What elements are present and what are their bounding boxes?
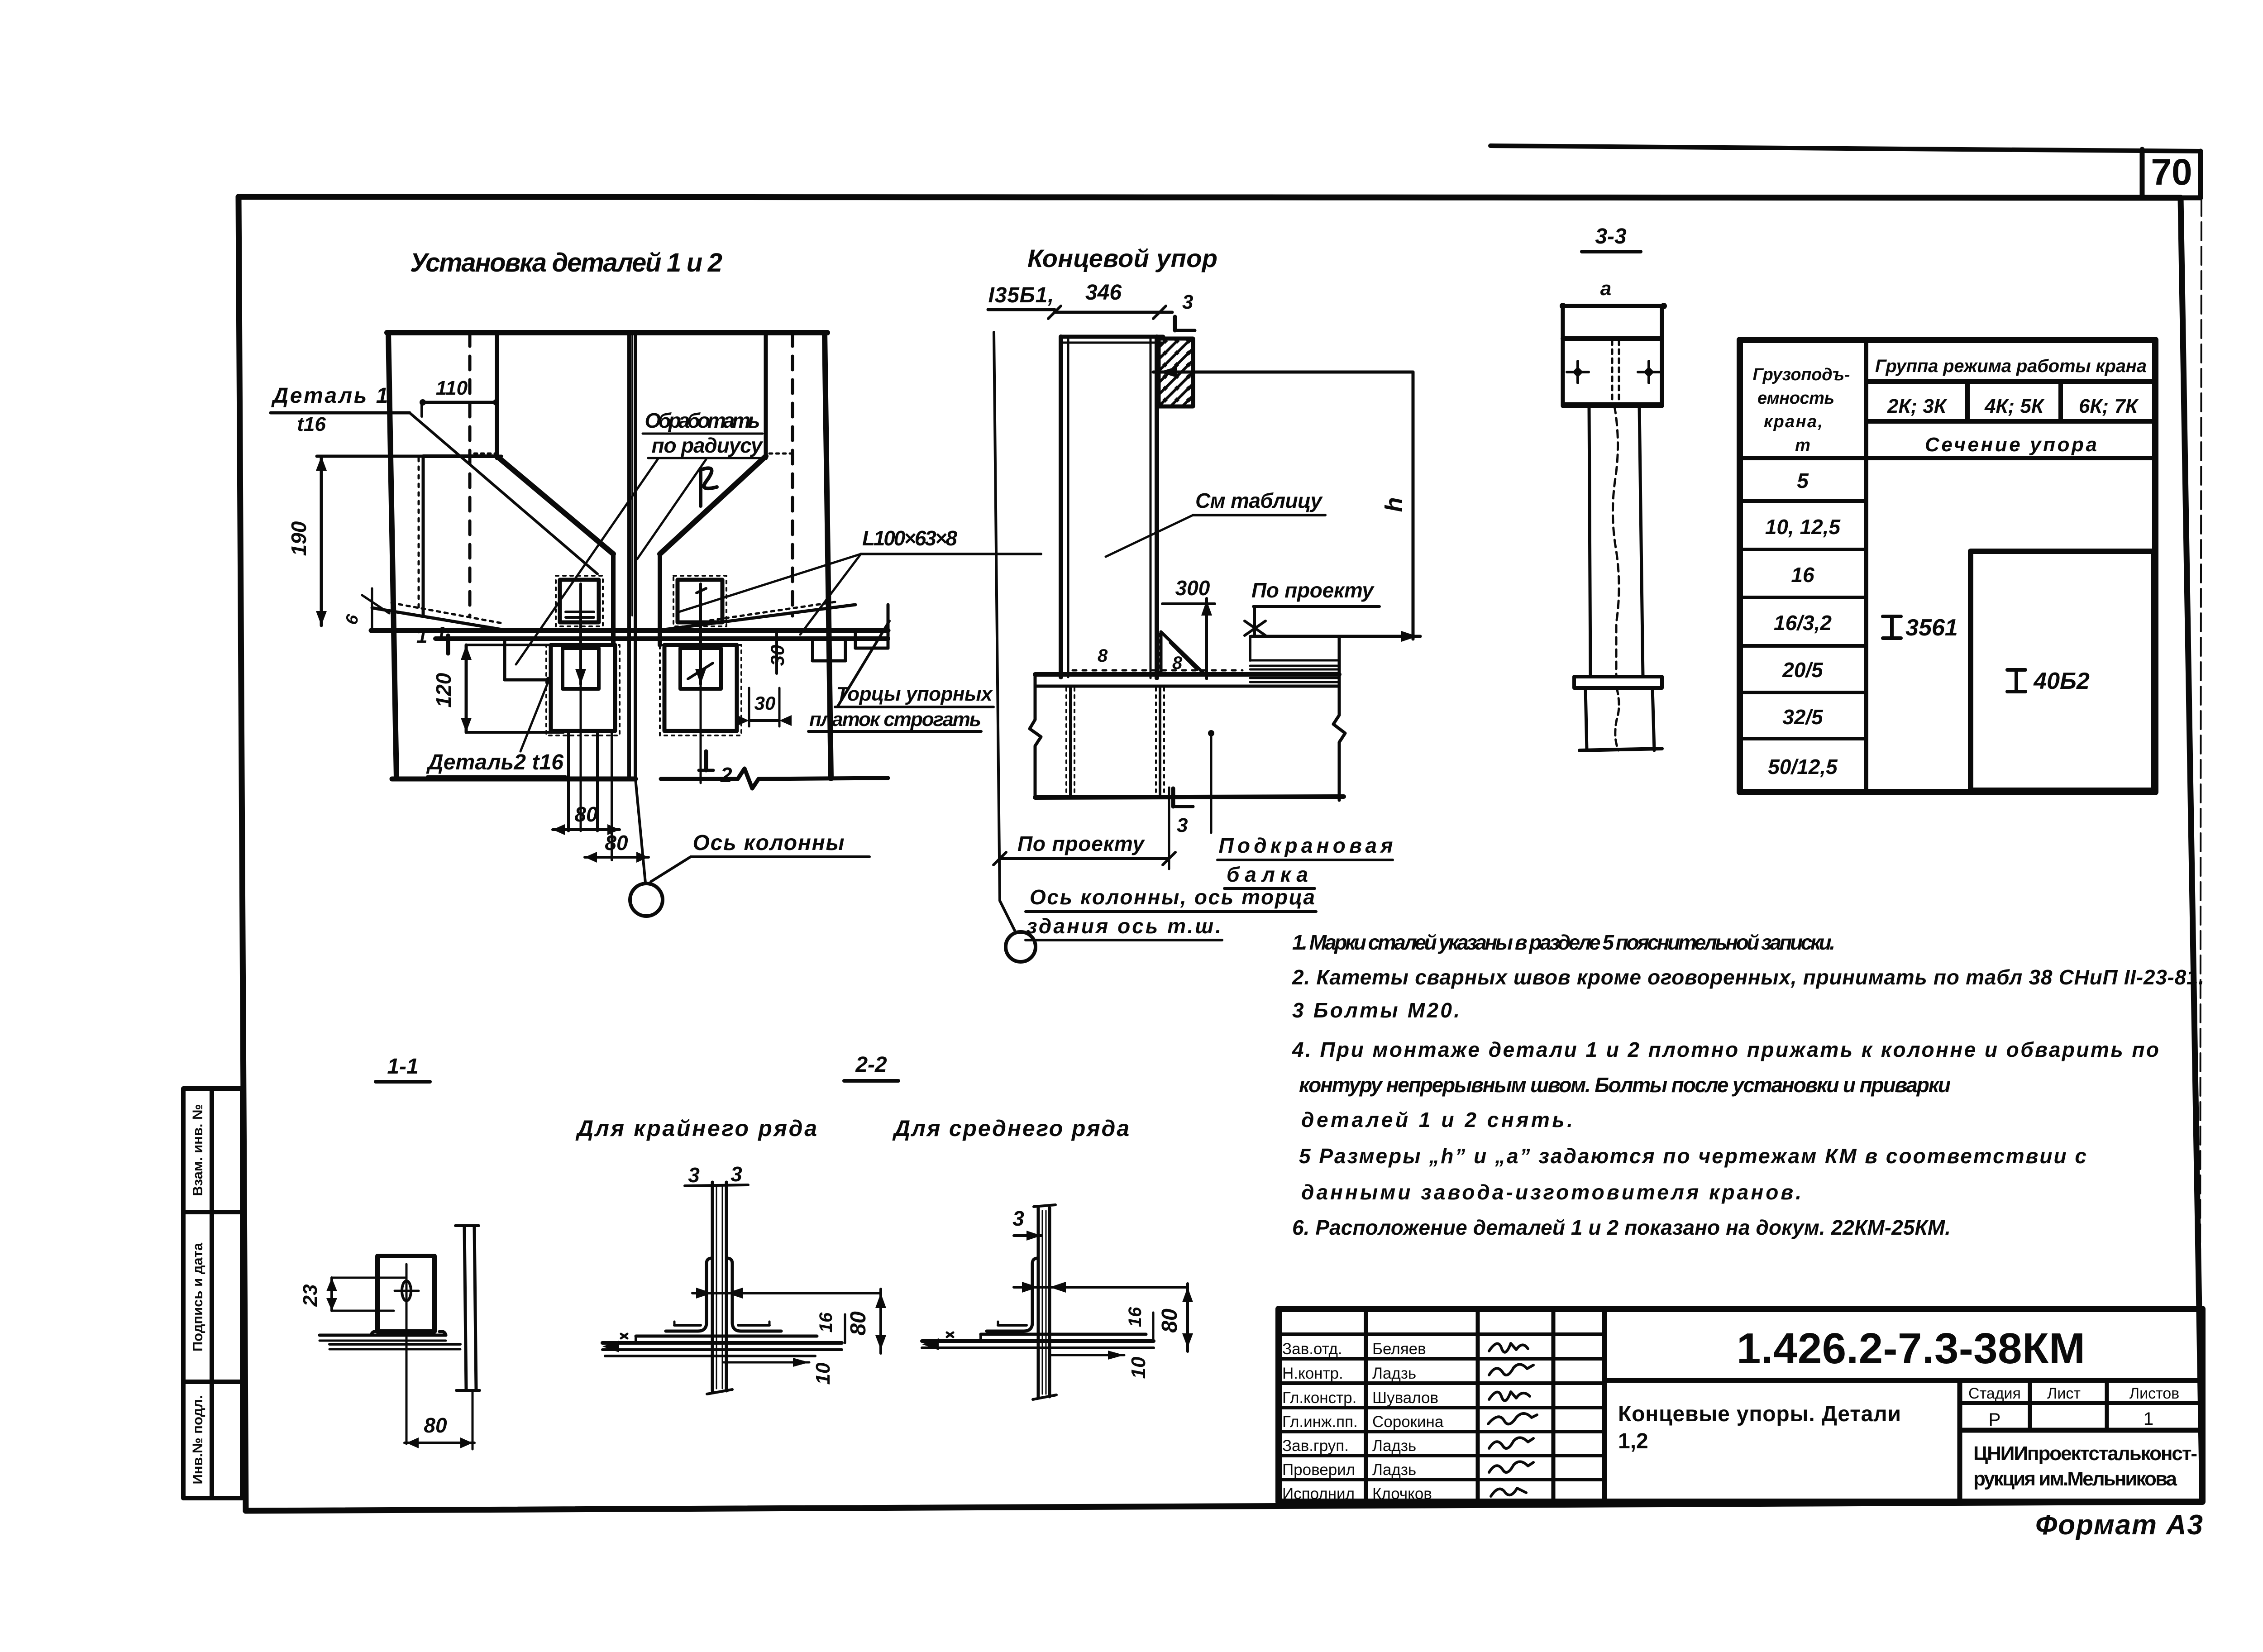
svg-text:16: 16 [1791, 563, 1814, 587]
svg-text:3-3: 3-3 [1595, 224, 1627, 248]
funnel right slope [660, 456, 766, 554]
svg-text:80: 80 [846, 1311, 870, 1336]
column axis circle [630, 883, 663, 916]
svg-text:80: 80 [574, 802, 598, 826]
signatures squiggles [1488, 1343, 1537, 1496]
svg-text:Гл.инж.пп.: Гл.инж.пп. [1282, 1413, 1358, 1431]
top binding strip [1490, 146, 2201, 151]
svg-text:Лист: Лист [2047, 1385, 2081, 1402]
table rows load values [1765, 469, 1841, 778]
svg-text:Подкрановая: Подкрановая [1219, 834, 1393, 857]
legs below left detail [567, 731, 570, 831]
svg-text:80: 80 [1158, 1308, 1182, 1333]
funnel left slope [497, 456, 613, 554]
base plate of stop [1574, 677, 1662, 688]
svg-text:Зав.груп.: Зав.груп. [1282, 1437, 1349, 1455]
svg-text:a: a [1600, 277, 1611, 300]
2-2 edge row: left angle stiffener [666, 1258, 711, 1331]
svg-text:Р: Р [1989, 1410, 2001, 1430]
lower stop detail right inner [680, 648, 721, 689]
2-2 edge row: base plate band [636, 1335, 817, 1338]
value I 3561 [1883, 616, 1901, 638]
paper right edge [2200, 198, 2201, 1308]
title block row lines [1279, 1334, 2202, 1480]
section 1-1 bolt [395, 1290, 419, 1292]
svg-text:Деталь2 t16: Деталь2 t16 [426, 750, 563, 774]
svg-text:По проекту: По проекту [1251, 578, 1375, 602]
gusset triangle [1161, 632, 1205, 675]
svg-text:3: 3 [1012, 1207, 1024, 1230]
svg-text:3: 3 [730, 1162, 742, 1186]
svg-text:Группа режима работы крана: Группа режима работы крана [1875, 356, 2147, 376]
svg-text:10: 10 [1127, 1356, 1150, 1379]
svg-text:1. Марки сталей указаны в разд: 1. Марки сталей указаны в разделе 5 пояс… [1292, 931, 1835, 954]
svg-text:1: 1 [2144, 1409, 2153, 1429]
svg-text:8: 8 [1098, 646, 1108, 666]
sheet border frame [239, 197, 2202, 1511]
dim 80 first [553, 828, 620, 831]
svg-text:4К; 5К: 4К; 5К [1984, 395, 2045, 417]
svg-text:5: 5 [1797, 469, 1809, 492]
column top edge [387, 330, 827, 335]
svg-text:Шувалов: Шувалов [1372, 1389, 1438, 1407]
section 1-1 stop plate [377, 1256, 434, 1332]
stop head box [1563, 306, 1662, 406]
step under plate right [844, 639, 847, 661]
svg-text:I35Б1,: I35Б1, [988, 283, 1054, 307]
svg-text:50/12,5: 50/12,5 [1768, 755, 1838, 778]
svg-text:2К; 3К: 2К; 3К [1887, 395, 1948, 417]
detail 1 plate welded edge [422, 456, 425, 615]
svg-text:80: 80 [424, 1413, 447, 1437]
table header Грузоподъемность крана т [1753, 365, 1850, 455]
svg-text:3561: 3561 [1905, 615, 1958, 641]
lower stub [1585, 688, 1587, 750]
upper stop plate left [560, 580, 599, 622]
svg-text:5 Размеры „h” и „а” задаются: 5 Размеры „h” и „а” задаются по чертежам… [1299, 1144, 2086, 1168]
svg-text:Грузоподъ-: Грузоподъ- [1753, 365, 1850, 384]
svg-text:данными завода-изготовителя кр: данными завода-изготовителя кранов. [1301, 1180, 1801, 1204]
dim 80 second [585, 856, 649, 859]
svg-text:Гл.констр.: Гл.констр. [1282, 1389, 1356, 1407]
svg-text:32/5: 32/5 [1782, 705, 1824, 729]
upper stop plate right [678, 580, 722, 622]
svg-text:h: h [1380, 497, 1408, 512]
stop shaft [1589, 406, 1590, 677]
svg-text:Инв.№ подл.: Инв.№ подл. [190, 1395, 205, 1484]
svg-text:платок строгать: платок строгать [809, 708, 981, 731]
weld flag symbol [701, 468, 717, 506]
svg-text:1: 1 [435, 623, 446, 645]
page number box 70 [2142, 149, 2201, 198]
step under plate left [503, 639, 506, 680]
svg-text:Клочков: Клочков [1372, 1485, 1432, 1503]
bolt axis right [699, 584, 702, 684]
svg-text:10: 10 [812, 1362, 834, 1385]
section 1-1 dim 80 [405, 1442, 474, 1444]
svg-text:Концевой упор: Концевой упор [1027, 244, 1217, 272]
svg-text:120: 120 [432, 673, 455, 707]
section 1-1 dim 23 [330, 1278, 333, 1311]
column axis line [994, 332, 1000, 901]
svg-text:10, 12,5: 10, 12,5 [1765, 515, 1841, 539]
lower stop detail left outer [551, 645, 615, 731]
svg-text:3: 3 [1177, 814, 1188, 836]
column cap [1061, 335, 1163, 339]
2-2 edge row: dim 80 horizontal line [692, 1292, 881, 1294]
svg-text:2: 2 [720, 763, 732, 787]
svg-text:30: 30 [754, 692, 776, 714]
column right flange inner [764, 333, 768, 458]
svg-text:6. Расположение деталей 1 и 2: 6. Расположение деталей 1 и 2 показано н… [1292, 1216, 1951, 1239]
section 1-1 axis [406, 1264, 408, 1444]
inner cell box I40Б2 [1971, 551, 2153, 790]
left stamp column boxes [183, 1089, 242, 1498]
svg-text:Взам. инв. №: Взам. инв. № [190, 1104, 205, 1196]
dim 110 [422, 401, 497, 404]
svg-text:Н.контр.: Н.контр. [1282, 1365, 1343, 1382]
hatched top edge of left flange plate [474, 453, 497, 455]
svg-text:3 Болты М20.: 3 Болты М20. [1292, 998, 1460, 1022]
signature rows labels [1282, 1340, 1358, 1503]
svg-text:110: 110 [436, 377, 468, 399]
svg-text:Подпись и дата: Подпись и дата [190, 1242, 205, 1351]
svg-text:Для крайнего ряда: Для крайнего ряда [575, 1116, 817, 1141]
beam bottom line [1035, 797, 1344, 797]
beam right end with break [1333, 636, 1345, 800]
title block verticals [1366, 1309, 2107, 1501]
svg-text:по радиусу: по радиусу [652, 434, 764, 457]
section 1-1 plate foot flare [371, 1332, 446, 1335]
h dimension [1153, 371, 1413, 374]
svg-text:контуру непрерывным швом. Болт: контуру непрерывным швом. Болты после ус… [1299, 1073, 1951, 1097]
notes text block [1292, 931, 2204, 1239]
2-2 mid row: base plate band [981, 1333, 1146, 1336]
svg-text:70: 70 [2151, 152, 2192, 193]
svg-text:т: т [1795, 436, 1810, 455]
column left flange inner [495, 333, 499, 458]
2-2 edge row: right angle stiffener [727, 1258, 781, 1331]
svg-text:80: 80 [605, 831, 628, 855]
svg-text:1: 1 [416, 625, 427, 647]
column right flange outer [825, 333, 831, 778]
2-2 mid row: dim 80 horizontal line [1014, 1286, 1188, 1289]
column left flange hidden line [468, 333, 472, 616]
column axis leader and label Ось колонны [635, 779, 645, 883]
svg-text:1.426.2-7.3-38КМ: 1.426.2-7.3-38КМ [1737, 1324, 2085, 1373]
svg-text:Проверил: Проверил [1282, 1461, 1355, 1479]
svg-text:6К; 7К: 6К; 7К [2079, 395, 2139, 417]
svg-text:емность: емность [1757, 389, 1834, 408]
svg-text:3: 3 [1182, 291, 1193, 313]
svg-text:Ладзь: Ладзь [1372, 1365, 1416, 1382]
column flange lines [1059, 337, 1063, 677]
svg-text:16: 16 [816, 1312, 836, 1332]
svg-text:ЦНИИпроектстальконст-: ЦНИИпроектстальконст- [1973, 1442, 2197, 1465]
svg-text:L100×63×8: L100×63×8 [862, 526, 957, 550]
svg-text:16/3,2: 16/3,2 [1774, 611, 1832, 635]
svg-text:2-2: 2-2 [855, 1053, 887, 1077]
svg-text:1,2: 1,2 [1618, 1429, 1648, 1453]
bolt axis left [579, 584, 582, 684]
2-2 edge row: dims 16 80 10 [844, 1314, 846, 1343]
column left flange outer [388, 333, 396, 778]
svg-text:Торцы упорных: Торцы упорных [836, 683, 993, 705]
svg-text:3: 3 [688, 1163, 700, 1187]
svg-text:Исполнил: Исполнил [1282, 1485, 1355, 1503]
svg-text:Ладзь: Ладзь [1372, 1461, 1416, 1479]
signature rows names [1372, 1340, 1444, 1503]
svg-text:346: 346 [1085, 281, 1122, 305]
right sloped base plate [661, 605, 855, 630]
svg-text:1-1: 1-1 [387, 1055, 418, 1079]
beam left end with break [1030, 674, 1041, 797]
svg-text:16: 16 [1125, 1307, 1145, 1327]
svg-text:См таблицу: См таблицу [1195, 489, 1323, 512]
label Подкрановая балка [1210, 733, 1213, 833]
svg-text:190: 190 [287, 521, 310, 556]
end stop hatched block [1159, 339, 1193, 406]
bolt symbol right [1638, 371, 1660, 373]
svg-text:рукция им.Мельникова: рукция им.Мельникова [1973, 1468, 2177, 1490]
svg-text:Для среднего ряда: Для среднего ряда [892, 1116, 1129, 1141]
crane duty table [1740, 340, 2155, 792]
svg-text:4. При монтаже детали 1 и 2 пл: 4. При монтаже детали 1 и 2 плотно прижа… [1292, 1038, 2159, 1061]
left sloped base plate [372, 608, 505, 630]
beam web welded [1069, 686, 1072, 797]
axis circle [1006, 932, 1036, 962]
column right flange hidden line [791, 333, 794, 616]
svg-text:Беляев: Беляев [1372, 1340, 1426, 1358]
section 1-1 column flange [464, 1227, 466, 1390]
base plate band [371, 628, 888, 633]
svg-text:здания ось т.ш.: здания ось т.ш. [1026, 914, 1221, 938]
crane beam top flange [1035, 672, 1339, 677]
svg-text:деталей 1 и 2 снять.: деталей 1 и 2 снять. [1301, 1108, 1573, 1132]
svg-text:Зав.отд.: Зав.отд. [1282, 1340, 1342, 1358]
lower stop detail left inner [563, 648, 599, 689]
svg-text:2. Катеты сварных швов кроме о: 2. Катеты сварных швов кроме оговоренных… [1292, 965, 2204, 989]
svg-text:Установка деталей 1 и 2: Установка деталей 1 и 2 [410, 248, 722, 277]
svg-text:Обработать: Обработать [645, 409, 760, 432]
svg-text:40Б2: 40Б2 [2033, 668, 2090, 694]
svg-text:Ладзь: Ладзь [1372, 1437, 1416, 1455]
section mark 2 cut [704, 751, 708, 770]
column web pair [627, 333, 631, 779]
2-2 mid row: vertical stop plate [1037, 1208, 1040, 1397]
value I 40Б2 [2007, 670, 2025, 692]
svg-text:23: 23 [299, 1284, 321, 1307]
svg-text:По проекту: По проекту [1017, 832, 1145, 855]
svg-text:Листов: Листов [2129, 1385, 2179, 1402]
2-2 edge row: vertical stop plate [711, 1182, 714, 1391]
svg-text:t16: t16 [297, 413, 326, 435]
svg-text:Сорокина: Сорокина [1372, 1413, 1444, 1431]
crane rail stack [1250, 660, 1339, 682]
dim 120 [465, 645, 468, 732]
lower stop detail right outer [664, 645, 737, 731]
svg-text:300: 300 [1175, 576, 1210, 600]
2-2 mid row: dims 16 80 10 [1152, 1313, 1155, 1341]
2-2 mid row: left angle stiffener [987, 1258, 1037, 1331]
column bottom break line [392, 777, 635, 782]
bolt symbol left [1567, 371, 1589, 373]
svg-text:20/5: 20/5 [1782, 658, 1824, 682]
dim 190 [317, 455, 501, 458]
svg-text:Стадия: Стадия [1968, 1385, 2021, 1402]
section mark 3 bottom [1171, 788, 1175, 807]
svg-text:Ось колонны: Ось колонны [693, 831, 845, 855]
section 1-1 base plates [320, 1334, 446, 1337]
title block outer [1279, 1309, 2202, 1502]
svg-text:Концевые упоры. Детали: Концевые упоры. Детали [1618, 1402, 1901, 1426]
svg-text:Формат А3: Формат А3 [2035, 1509, 2203, 1541]
